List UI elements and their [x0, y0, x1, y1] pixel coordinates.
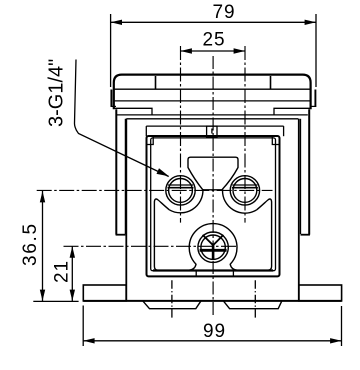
- face center tab mark: [211, 129, 213, 134]
- bottom port outer circle: [198, 232, 228, 262]
- dimension 99 extension line right: [341, 306, 343, 346]
- left port chord lines: [168, 184, 193, 186]
- centerline middle vertical: [212, 56, 214, 316]
- cap bottom right segment: [274, 108, 311, 115]
- panel corner block left: [147, 137, 153, 145]
- pocket left port cutout arc: [169, 189, 203, 213]
- pocket right port cutout arc: [223, 189, 257, 213]
- face center tab: [207, 126, 217, 137]
- dimension 21 line: [71, 246, 73, 301]
- dimension 25 line: [181, 50, 246, 52]
- dimension 25 arrow left: [181, 48, 192, 53]
- dimension 36.5 arrow top: [40, 191, 45, 202]
- right port inner circle: [233, 179, 257, 203]
- label leader arrowhead: [157, 168, 169, 176]
- dimension 79 arrow left: [111, 20, 122, 25]
- dimension 99 arrow left: [83, 338, 94, 343]
- cap tab right: [314, 90, 316, 107]
- dimension 99 arrow right: [330, 338, 341, 343]
- foot right: [299, 285, 342, 301]
- panel inner rounded rect: [151, 138, 276, 271]
- label reference line: [74, 60, 168, 177]
- pocket bottom thick line: [153, 269, 273, 271]
- pocket slot left below omega: [195, 270, 197, 276]
- side rail right bottom: [301, 234, 310, 236]
- cap horizontal line lower: [114, 100, 311, 102]
- centerline top ports horizontal: [37, 189, 273, 191]
- centerline left pad vertical: [171, 280, 173, 318]
- cap tab left: [110, 90, 112, 107]
- dimension 36.5/21 bottom extension line: [33, 300, 78, 302]
- pad left: [143, 301, 201, 309]
- side rail left bottom: [116, 234, 126, 236]
- centerline right port vertical: [244, 46, 246, 223]
- left port outer circle: [166, 176, 195, 205]
- dimension 79 extension line left: [110, 14, 112, 87]
- centerline bottom port horizontal: [64, 245, 238, 247]
- bottom line: [83, 300, 341, 302]
- bottom port Y mark right arm: [213, 235, 223, 245]
- dimension 36.5 arrow bottom: [40, 290, 45, 301]
- pocket funnel: [188, 157, 238, 190]
- svg-text:25: 25: [203, 30, 226, 51]
- face top right end vertical: [283, 126, 285, 136]
- dimension 79 line: [111, 21, 316, 23]
- side rail right outer: [308, 109, 310, 234]
- bottom port Y mark stem: [212, 245, 215, 260]
- cap outer outline: [114, 75, 311, 110]
- pocket waist and omega outline: [154, 199, 271, 270]
- pocket slot right below omega: [232, 270, 234, 276]
- left port inner circle: [169, 179, 193, 203]
- body right edge: [298, 119, 300, 301]
- dimension 99 line: [83, 340, 341, 342]
- side rail right inner: [300, 119, 302, 234]
- dimension 21 arrow bottom: [70, 290, 75, 301]
- foot left: [83, 285, 126, 301]
- dimension 25 arrow right: [234, 48, 245, 53]
- cap bottom left segment: [114, 108, 152, 115]
- dimension 21 arrow top: [70, 246, 75, 257]
- panel corner block right: [272, 137, 278, 145]
- cap horizontal line upper: [114, 88, 311, 90]
- dimension 99 extension line left: [82, 306, 84, 347]
- right port outer circle: [230, 176, 259, 205]
- svg-text:21: 21: [51, 260, 72, 283]
- centerline right pad vertical: [254, 280, 256, 318]
- svg-text:99: 99: [203, 321, 226, 342]
- dimension 36.5 line: [42, 191, 44, 301]
- right port chord lines: [232, 184, 257, 186]
- face top line: [146, 125, 283, 127]
- bottom port inner circle: [201, 235, 225, 259]
- pad right: [224, 301, 282, 309]
- body top line: [116, 114, 307, 116]
- bottom port Y mark left arm: [203, 235, 214, 245]
- side rail left inner: [124, 119, 126, 234]
- svg-text:3-G1/4": 3-G1/4": [46, 59, 68, 127]
- cap tick right: [270, 76, 272, 89]
- side rail left outer: [115, 109, 117, 234]
- body top inner line: [126, 118, 298, 120]
- body left edge: [125, 119, 127, 301]
- centerline left port vertical: [180, 46, 182, 223]
- dimension 79 arrow right: [305, 20, 316, 25]
- panel outer rounded rect: [147, 136, 280, 276]
- svg-text:79: 79: [213, 2, 236, 23]
- svg-text:36.5: 36.5: [20, 222, 41, 266]
- bottom port thick chord: [200, 249, 227, 252]
- face top left end vertical: [145, 126, 147, 136]
- cap tick left: [155, 76, 157, 89]
- dimension 79 extension line right: [315, 14, 317, 87]
